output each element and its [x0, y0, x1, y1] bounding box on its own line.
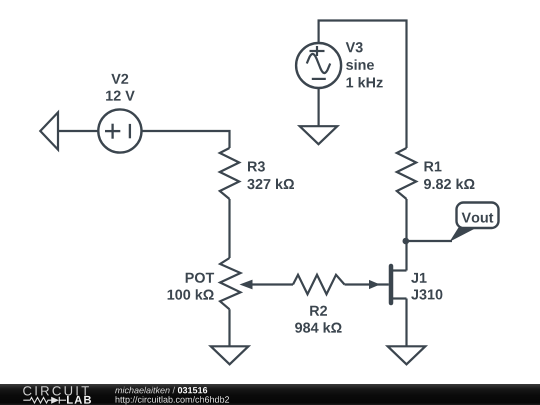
wire J1 drain to R1	[405, 199, 407, 271]
footer credit michaelaitken 031516	[115, 387, 207, 394]
wire R3 to POT	[228, 199, 230, 258]
wire V3 to ground	[318, 88, 320, 126]
flag Vout pointer	[450, 203, 499, 242]
resistor R1	[397, 148, 416, 199]
label R2 984 kOhm	[295, 306, 342, 333]
resistor R2	[293, 275, 345, 294]
footer bar	[0, 384, 540, 405]
wire node to Vout flag	[407, 240, 453, 242]
wire R1 to V3 top	[319, 21, 407, 149]
label R1 9.82 kOhm	[424, 162, 475, 190]
transistor J1 JFET	[369, 266, 407, 303]
ground under V3	[300, 126, 338, 144]
label POT 100 kOhm	[168, 273, 215, 300]
CircuitLab logo	[23, 386, 91, 404]
label Vout	[462, 213, 494, 223]
wire J1 source to ground	[405, 299, 407, 347]
label V3 sine 1 kHz	[346, 42, 383, 87]
footer url	[116, 396, 230, 404]
wire V2 to R3	[142, 131, 230, 148]
label J1 J310	[411, 273, 442, 300]
potentiometer POT	[220, 258, 252, 309]
label R3 327 kOhm	[247, 161, 294, 189]
ground flag left at V2	[40, 112, 58, 149]
wire POT to ground	[228, 309, 230, 346]
wire POT wiper to R2	[251, 283, 293, 285]
wire R2 to J1 gate	[345, 283, 389, 285]
ground under J1	[388, 346, 426, 364]
label V2 12 V	[106, 74, 135, 101]
voltage source V3 sine	[296, 43, 341, 88]
wire flag to V2	[58, 130, 99, 132]
ground under POT	[211, 346, 249, 364]
resistor R3	[220, 148, 239, 199]
voltage source V2	[98, 109, 141, 152]
node junction dot	[403, 238, 410, 245]
